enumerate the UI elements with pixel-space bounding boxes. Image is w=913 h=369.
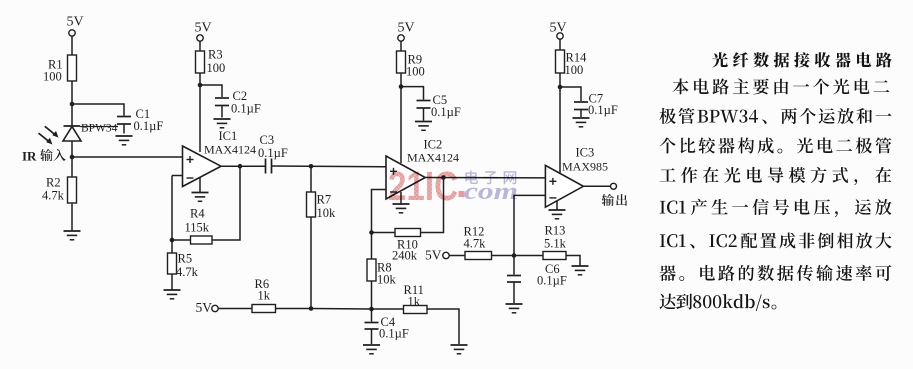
capacitor C3 — [265, 159, 267, 174]
resistor R14 — [556, 50, 565, 73]
capacitor C5 — [417, 100, 431, 102]
wire 5V to R3 — [199, 41, 201, 51]
resistor R9 — [397, 51, 406, 73]
ground C2 — [214, 118, 231, 120]
op-amp IC2 — [386, 156, 425, 199]
svg-text:5V: 5V — [397, 21, 414, 36]
wire R11 to ground — [427, 309, 459, 344]
wire R14 to IC3 power — [559, 73, 561, 174]
ground stem IC3 — [556, 201, 558, 211]
wire node to R13 — [514, 255, 543, 257]
svg-text:com: com — [464, 179, 518, 205]
resistor R1 — [68, 55, 77, 81]
wire C6 stem — [513, 256, 515, 275]
svg-text:0.1µF: 0.1µF — [258, 146, 288, 160]
wire R7 to bottom rail — [310, 217, 312, 309]
ground R13 — [572, 265, 589, 267]
svg-text:0.1µF: 0.1µF — [588, 103, 618, 117]
svg-text:5V: 5V — [549, 21, 566, 36]
ground under IC3 — [549, 209, 566, 211]
resistor R3 — [196, 51, 205, 73]
wire R8 to rail node — [371, 281, 373, 309]
wire node to R10 — [372, 232, 396, 234]
svg-text:115k: 115k — [185, 221, 210, 235]
resistor R12 — [465, 252, 492, 260]
wire 5V to R9 — [400, 41, 402, 51]
svg-text:0.1µF: 0.1µF — [379, 327, 409, 341]
wire IC3 output — [583, 185, 610, 187]
resistor R10 — [395, 229, 421, 237]
resistor R8 — [367, 259, 376, 281]
wire R1 to photodiode cathode — [71, 81, 73, 126]
node R4/R5 — [170, 238, 175, 243]
ground C4 — [363, 344, 380, 346]
wire C3 to IC2 + input — [272, 165, 387, 168]
wire node to C2 — [200, 85, 222, 97]
body line 7 — [660, 265, 892, 281]
resistor R7 — [307, 192, 316, 217]
output terminal — [611, 183, 617, 189]
power terminal 5V (R14 branch) — [557, 33, 563, 39]
svg-text:R3: R3 — [208, 48, 223, 62]
wire diode to IR node — [71, 141, 73, 157]
svg-text:BPW34: BPW34 — [81, 123, 118, 135]
node IC2 output — [441, 175, 446, 180]
svg-text:100: 100 — [207, 61, 226, 75]
svg-text:100: 100 — [406, 65, 425, 79]
svg-text:5.1k: 5.1k — [544, 237, 567, 251]
capacitor C7 — [574, 101, 588, 103]
op-amp IC1 — [183, 146, 222, 187]
ground R11 — [451, 344, 468, 346]
svg-text:5V: 5V — [194, 21, 211, 36]
power terminal 5V (R3 branch) — [197, 35, 203, 41]
svg-text:240k: 240k — [392, 249, 418, 263]
ground stem IC2 — [400, 192, 402, 204]
svg-text:MAX985: MAX985 — [562, 160, 608, 174]
body line 3 — [660, 137, 892, 153]
svg-text:IR: IR — [22, 149, 37, 164]
ground under R5 — [164, 289, 181, 291]
svg-text:0.1µF: 0.1µF — [431, 105, 461, 119]
comparator IC3 — [545, 165, 583, 207]
capacitor C6 — [507, 275, 521, 277]
capacitor C1 — [117, 116, 131, 118]
body line 2 — [659, 108, 891, 124]
wire IC2 out to IC3 + input — [425, 177, 545, 179]
wire R7 top lead — [310, 166, 312, 192]
wire R2 to ground — [71, 203, 73, 231]
wire R10 to IC2 output — [421, 178, 444, 233]
wire node to C1 — [72, 104, 124, 116]
wire IC1 out to C3 — [221, 165, 266, 167]
wire IR node to R2 — [71, 157, 73, 177]
wire R6 to rail — [276, 308, 312, 310]
svg-text:0.1µF: 0.1µF — [134, 119, 164, 133]
svg-text:5V: 5V — [425, 248, 442, 263]
resistor R2 — [68, 177, 77, 203]
wire R12 to node — [492, 255, 515, 257]
watermark 21IC — [388, 163, 518, 209]
watermark dianziwang — [465, 170, 516, 184]
wire 5V to R14 — [559, 39, 561, 50]
svg-text:IC3: IC3 — [576, 146, 595, 160]
node C4/R8/R11 — [369, 307, 374, 312]
body line 8 — [660, 294, 777, 311]
resistor R6 — [252, 305, 276, 313]
ground C7 — [573, 117, 590, 119]
svg-text:R7: R7 — [317, 193, 332, 207]
power terminal 5V (R1 branch) — [69, 30, 75, 36]
wire cathode to C1 plate (through BPW34 label) — [80, 126, 118, 128]
body line 4 — [660, 167, 892, 185]
svg-text:4.7k: 4.7k — [42, 189, 65, 203]
wire IC2 - input — [372, 190, 387, 233]
svg-text:10k: 10k — [317, 206, 337, 220]
wire R4 to output feedback — [212, 166, 240, 240]
wire node to C7 — [560, 87, 581, 101]
capacitor C2 — [215, 97, 229, 99]
wire inverting node down — [171, 176, 173, 241]
resistor R11 — [404, 306, 428, 314]
ground stem IC1 — [199, 178, 201, 193]
svg-text:21IC: 21IC — [388, 163, 458, 209]
node IR input — [70, 155, 75, 160]
svg-text:10k: 10k — [377, 273, 397, 287]
svg-text:4.7k: 4.7k — [464, 237, 487, 251]
svg-text:0.1µF: 0.1µF — [537, 274, 567, 288]
svg-text:IC2: IC2 — [424, 138, 443, 152]
body line 5 — [660, 199, 892, 217]
svg-text:100: 100 — [43, 70, 62, 84]
title 光纤数据接收器电路 — [712, 52, 891, 67]
label output — [602, 194, 627, 206]
wire 5V to R12 — [449, 255, 465, 257]
svg-text:100: 100 — [565, 63, 584, 77]
svg-text:R13: R13 — [545, 224, 566, 238]
resistor R5 — [168, 253, 177, 274]
wire rail R7 to R8 node — [311, 308, 372, 311]
wire IC1 - input — [172, 175, 183, 177]
node IC1 output — [238, 164, 243, 169]
svg-text:R4: R4 — [190, 207, 205, 221]
ground under IC1 — [192, 192, 209, 194]
svg-text:R2: R2 — [46, 176, 61, 190]
svg-text:C3: C3 — [260, 133, 275, 147]
ground C6 — [506, 303, 523, 305]
power terminal 5V (R12 branch) — [443, 252, 449, 258]
svg-text:1k: 1k — [408, 295, 421, 309]
power terminal 5V (R9 branch) — [398, 35, 404, 41]
node R7 top — [309, 164, 314, 169]
wire R3 to IC1 power — [199, 73, 201, 152]
wire C4 stem — [371, 309, 373, 322]
wire node to C5 — [401, 87, 424, 100]
body line 6 — [660, 233, 892, 249]
resistor R13 — [543, 252, 566, 260]
node R12/R13/C6 — [512, 253, 517, 258]
svg-text:4.7k: 4.7k — [176, 265, 199, 279]
wire node up to IC3 - input — [514, 195, 545, 255]
svg-text:IC1: IC1 — [219, 129, 238, 143]
svg-text:5V: 5V — [196, 300, 213, 315]
svg-text:5V: 5V — [66, 15, 83, 30]
resistor R4 — [191, 236, 213, 244]
svg-text:0.1µF: 0.1µF — [231, 102, 261, 116]
wire R5 to ground — [171, 274, 173, 290]
wire R9 to IC2 power — [400, 73, 402, 163]
svg-text:R5: R5 — [178, 252, 193, 266]
wire 5V to R1 — [71, 36, 73, 55]
photodiode BPW34 — [64, 125, 81, 127]
svg-text:1k: 1k — [258, 289, 271, 303]
ground under R2 — [64, 230, 81, 232]
capacitor C4 — [365, 322, 379, 324]
body line 1 — [673, 78, 890, 94]
ground C1 — [116, 135, 133, 137]
ground under IC2 — [393, 203, 410, 205]
node R10/R8 — [369, 230, 374, 235]
svg-text:MAX4124: MAX4124 — [204, 143, 256, 157]
wire R8 top — [371, 233, 373, 260]
wire rail to R11 — [372, 308, 404, 310]
ground C5 — [415, 121, 432, 123]
node R7 bottom — [309, 306, 314, 311]
wire IR node to IC1 + input — [72, 156, 183, 158]
wire R13 to ground — [566, 256, 580, 267]
wire node to R4 — [172, 239, 191, 241]
wire 5V to R6 — [218, 308, 252, 310]
wire R5 top — [171, 240, 173, 253]
power terminal 5V (R6 branch) — [212, 305, 218, 311]
